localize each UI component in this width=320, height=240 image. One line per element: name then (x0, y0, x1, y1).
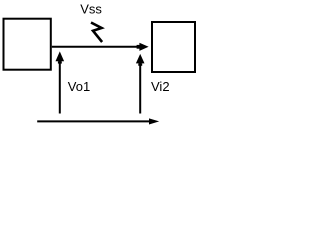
wire: signal path from stage 1 output to stage 2 input (52, 46, 141, 48)
svg-text:Vi2: Vi2 (151, 79, 170, 94)
voltage arrow Vo1 (node Vo1) (59, 59, 61, 114)
block U1 (amplifier stage 1) (4, 19, 51, 70)
arrowhead into stage 2 input (139, 43, 148, 51)
noise source Vss (zigzag coupling symbol) (91, 23, 102, 43)
svg-text:Vss: Vss (80, 2, 102, 17)
wire: bottom signal-flow arrow (37, 120, 151, 122)
voltage arrow Vi2 (node Vi2) (139, 62, 141, 114)
svg-text:Vo1: Vo1 (68, 79, 90, 94)
block U2 (amplifier stage 2) (152, 22, 195, 72)
